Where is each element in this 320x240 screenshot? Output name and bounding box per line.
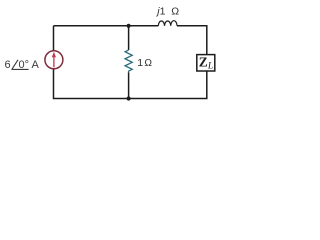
angle symbol underline: [12, 68, 29, 70]
svg-text:j1: j1: [155, 6, 165, 18]
svg-text:Ω: Ω: [144, 58, 152, 69]
junction node bottom: [127, 96, 131, 100]
svg-text:1: 1: [137, 57, 143, 69]
current source I1 arrow: [53, 57, 55, 68]
svg-text:Ω: Ω: [171, 6, 179, 18]
inductor L1 j1ohm coil: [158, 21, 177, 26]
wire: top-left segment: [54, 25, 159, 27]
svg-text:0° A: 0° A: [19, 59, 40, 71]
current source I1 circle: [45, 51, 63, 69]
wire: left branch lower + bottom wire + right branch lower: [54, 69, 207, 99]
resistor R1 zigzag: [125, 50, 132, 72]
wire: middle branch upper: [128, 26, 130, 50]
svg-text:6: 6: [5, 59, 11, 71]
wire: top-right segment and right branch upper: [177, 26, 207, 55]
load box ZL: [197, 55, 215, 71]
wire: middle branch lower: [128, 72, 130, 98]
angle symbol slash: [12, 60, 18, 70]
junction node top: [127, 24, 131, 28]
wire: left branch upper: [53, 26, 55, 51]
